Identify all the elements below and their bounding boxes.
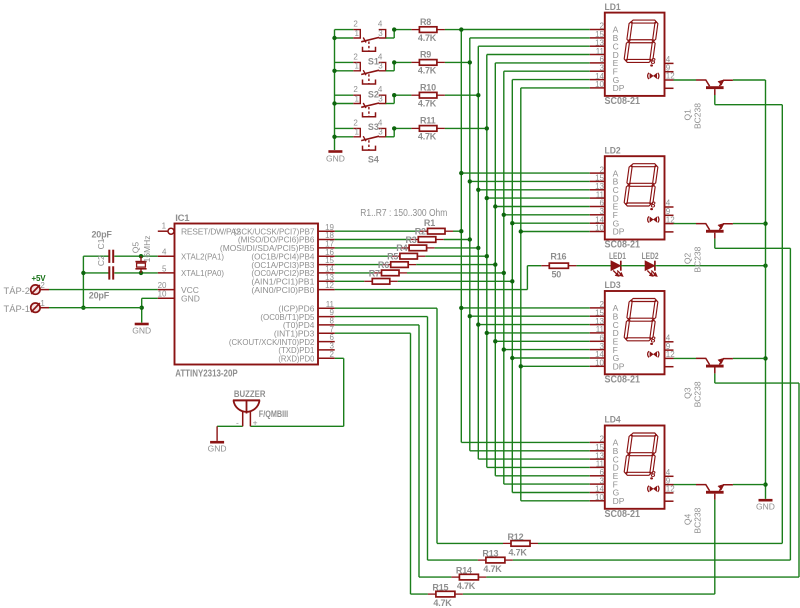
svg-text:10: 10 [595, 80, 604, 89]
svg-text:Q3: Q3 [683, 387, 693, 399]
svg-text:12: 12 [666, 485, 675, 494]
svg-text:4.7K: 4.7K [418, 98, 437, 108]
svg-text:DP: DP [613, 83, 625, 93]
svg-text:12: 12 [666, 72, 675, 81]
svg-text:SC08-21: SC08-21 [605, 508, 641, 520]
svg-text:S4: S4 [368, 154, 379, 164]
svg-text:-: - [236, 417, 239, 427]
svg-text:1: 1 [355, 62, 360, 71]
svg-text:R12: R12 [508, 532, 524, 542]
svg-text:+: + [253, 417, 258, 427]
svg-text:GND: GND [208, 444, 227, 454]
svg-text:LD4: LD4 [605, 415, 622, 426]
svg-text:SC08-21: SC08-21 [605, 239, 641, 251]
svg-text:TÁP-2: TÁP-2 [4, 286, 31, 296]
svg-text:12: 12 [666, 350, 675, 359]
svg-text:12: 12 [325, 281, 334, 290]
svg-text:20: 20 [158, 281, 167, 290]
svg-text:2: 2 [353, 85, 358, 94]
svg-text:GND: GND [181, 294, 200, 304]
svg-text:BC238: BC238 [693, 246, 703, 272]
svg-text:BC238: BC238 [693, 103, 703, 129]
svg-text:R13: R13 [482, 549, 498, 559]
svg-text:Q2: Q2 [683, 252, 693, 264]
svg-text:R10: R10 [420, 82, 436, 92]
svg-text:R8: R8 [420, 17, 431, 27]
svg-text:4.7K: 4.7K [418, 132, 437, 142]
svg-text:IC1: IC1 [175, 213, 190, 224]
svg-text:LD1: LD1 [605, 2, 622, 13]
svg-text:+5V: +5V [32, 274, 47, 283]
svg-text:XTAL1(PA0): XTAL1(PA0) [181, 268, 224, 278]
svg-text:1: 1 [162, 222, 167, 231]
svg-text:4: 4 [378, 85, 383, 94]
svg-text:DP: DP [613, 362, 625, 372]
svg-text:10: 10 [595, 493, 604, 502]
svg-text:3: 3 [378, 62, 383, 71]
svg-text:GND: GND [132, 326, 151, 336]
svg-text:R9: R9 [420, 50, 431, 60]
svg-text:R16: R16 [550, 252, 566, 262]
svg-text:LD2: LD2 [605, 145, 621, 156]
svg-text:GND: GND [326, 154, 345, 164]
svg-text:5: 5 [162, 264, 167, 273]
svg-text:TÁP-1: TÁP-1 [4, 304, 31, 314]
svg-text:2: 2 [330, 350, 335, 359]
svg-text:(RXD)PD0: (RXD)PD0 [278, 354, 314, 364]
svg-text:4.7K: 4.7K [483, 564, 502, 574]
svg-text:R1..R7 : 150..300 Ohm: R1..R7 : 150..300 Ohm [360, 208, 447, 219]
svg-text:10: 10 [158, 290, 167, 299]
svg-text:DP: DP [613, 227, 625, 237]
svg-text:LD3: LD3 [605, 280, 621, 291]
svg-text:SC08-21: SC08-21 [605, 95, 641, 107]
svg-text:(AIN0/PCI0)PB0: (AIN0/PCI0)PB0 [251, 285, 314, 295]
svg-text:4.7K: 4.7K [457, 581, 476, 591]
svg-text:ATTINY2313-20P: ATTINY2313-20P [175, 367, 238, 379]
svg-text:RESET/DW/PA2: RESET/DW/PA2 [181, 226, 241, 236]
svg-text:20pF: 20pF [92, 230, 113, 240]
svg-text:20pF: 20pF [89, 290, 110, 300]
svg-text:SC08-21: SC08-21 [605, 374, 641, 386]
svg-text:2: 2 [353, 52, 358, 61]
svg-text:10: 10 [595, 224, 604, 233]
svg-text:C1: C1 [96, 238, 106, 249]
svg-text:GND: GND [756, 502, 775, 512]
svg-text:XTAL2(PA1): XTAL2(PA1) [181, 251, 224, 261]
svg-text:R14: R14 [456, 566, 472, 576]
svg-text:Q1: Q1 [683, 109, 693, 121]
svg-text:10: 10 [595, 359, 604, 368]
svg-text:4: 4 [378, 52, 383, 61]
svg-text:3: 3 [378, 94, 383, 103]
svg-text:3: 3 [378, 29, 383, 38]
svg-text:BC238: BC238 [693, 507, 703, 533]
svg-text:2: 2 [353, 118, 358, 127]
svg-text:R15: R15 [432, 583, 448, 593]
svg-text:4.7K: 4.7K [418, 66, 437, 76]
svg-text:1: 1 [355, 29, 360, 38]
svg-text:DP: DP [613, 496, 625, 506]
svg-text:Q5: Q5 [131, 242, 141, 254]
svg-text:R7: R7 [369, 268, 380, 278]
svg-text:3: 3 [378, 128, 383, 137]
svg-text:LED1: LED1 [609, 251, 626, 261]
svg-text:R11: R11 [420, 116, 436, 126]
svg-text:4: 4 [378, 20, 383, 29]
svg-text:F/QMBIII: F/QMBIII [259, 409, 288, 419]
svg-text:1: 1 [40, 299, 45, 308]
svg-text:2: 2 [353, 20, 358, 29]
svg-text:4.7K: 4.7K [509, 547, 528, 557]
svg-text:1: 1 [355, 128, 360, 137]
svg-text:C2: C2 [96, 255, 106, 266]
svg-text:4.7K: 4.7K [433, 598, 452, 608]
svg-text:4: 4 [378, 118, 383, 127]
svg-text:1: 1 [355, 94, 360, 103]
svg-text:12: 12 [666, 215, 675, 224]
svg-text:BC238: BC238 [693, 381, 703, 407]
svg-text:BUZZER: BUZZER [234, 389, 266, 399]
svg-text:LED2: LED2 [642, 251, 659, 261]
svg-text:50: 50 [552, 269, 562, 279]
svg-text:4: 4 [162, 248, 167, 257]
svg-text:16MHz: 16MHz [142, 235, 152, 262]
svg-text:4.7K: 4.7K [418, 33, 437, 43]
svg-text:Q4: Q4 [683, 513, 693, 525]
